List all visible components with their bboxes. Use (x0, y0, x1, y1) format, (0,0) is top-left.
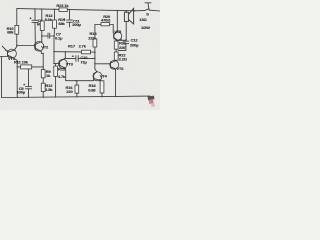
node C6 rail (34, 8, 35, 9)
speaker BL (124, 8, 133, 39)
wire VT6 base (95, 63, 111, 65)
node mid junction (53, 51, 54, 52)
resistor R13 (40, 9, 44, 36)
resistor R16 (75, 81, 79, 97)
node R17 R19 junction (94, 52, 95, 53)
wire VT1 emitter chain (13, 58, 17, 98)
ground end stamp (148, 96, 155, 107)
node R18 ground (101, 96, 102, 97)
transistor VT2 (34, 42, 44, 52)
resistor R22 (114, 52, 118, 61)
node VT5 rail (117, 10, 118, 11)
capacitor C6 (29, 9, 38, 42)
resistor R10 (14, 9, 18, 51)
wire signal down from C7 node (53, 36, 55, 64)
switch S (135, 9, 161, 11)
node C11 rail (69, 9, 70, 10)
wire VT3 emitter chain (66, 68, 94, 80)
svg-text:VT3: VT3 (66, 62, 74, 67)
capacitor C12 (118, 36, 129, 50)
resistor R21 (114, 41, 118, 52)
node R15 ground (55, 96, 56, 97)
node R11 tee (17, 66, 18, 67)
input signal arrow (2, 46, 7, 51)
svg-text:4.7k: 4.7k (58, 74, 66, 79)
svg-text:0.1µ: 0.1µ (55, 36, 63, 41)
svg-text:1/2W: 1/2W (141, 25, 150, 30)
svg-text:VT4: VT4 (100, 74, 108, 79)
transistor VT1 (7, 49, 16, 58)
node C10 right junction (94, 58, 95, 59)
svg-text:13Ω: 13Ω (139, 17, 147, 22)
wire R9 to R12 (42, 78, 44, 83)
resistor R14 (53, 9, 57, 36)
transistor VT3 (58, 59, 67, 68)
resistor R11 (17, 65, 43, 69)
svg-text:VT5: VT5 (114, 29, 122, 34)
resistor R18 (100, 80, 104, 96)
wire output to speaker (118, 39, 127, 41)
wire bottom ground rail (2, 96, 151, 97)
svg-text:200µ: 200µ (130, 42, 139, 47)
node VT3 base junction (53, 63, 54, 64)
resistor R23 (59, 8, 67, 12)
node R16 tee (75, 80, 76, 81)
svg-text:200µ: 200µ (72, 22, 81, 27)
node VT6 ground (115, 96, 116, 97)
wire VT2 emitter chain (41, 52, 43, 70)
svg-text:R11 10k: R11 10k (14, 60, 29, 65)
resistor R20 (95, 23, 113, 33)
capacitor C5 (23, 69, 32, 97)
wire right junction vertical (95, 52, 97, 71)
svg-text:1.5k: 1.5k (45, 87, 53, 92)
node R16 ground (76, 96, 77, 97)
resistor R9 (41, 70, 45, 78)
svg-text:100µ: 100µ (17, 90, 26, 95)
svg-text:22Ω: 22Ω (88, 35, 96, 40)
node C7 R14 junction (54, 35, 55, 36)
wire VT1 collector to VT2 base (17, 45, 36, 47)
svg-text:0.68: 0.68 (88, 87, 96, 92)
resistor R12 (41, 83, 45, 97)
svg-text:470Ω: 470Ω (101, 17, 111, 22)
node switch branch (134, 10, 135, 11)
node speaker output (126, 39, 127, 40)
node R12 ground (43, 97, 44, 98)
svg-text:2.2Ω: 2.2Ω (119, 56, 128, 61)
node R10 tee (16, 45, 17, 46)
transistor VT4 (93, 72, 102, 81)
resistor R19 (93, 25, 97, 53)
svg-text:VT2: VT2 (41, 45, 49, 50)
svg-text:5.6k: 5.6k (45, 17, 53, 22)
wire VT5 collector to rail (116, 11, 118, 32)
svg-text:R15: R15 (58, 67, 66, 72)
svg-text:2.7k: 2.7k (79, 43, 87, 48)
svg-text:220: 220 (66, 89, 73, 94)
svg-text:VT6: VT6 (116, 66, 124, 71)
capacitor C10 (65, 54, 95, 62)
node R13 bottom (41, 35, 42, 36)
svg-text:68k: 68k (7, 30, 14, 35)
wire VT3 base stub (54, 62, 60, 64)
wire VT6 emitter to ground (115, 69, 117, 97)
svg-text:R17: R17 (68, 43, 76, 48)
transistor VT6 (110, 60, 119, 69)
node VT1 emitter ground (17, 97, 18, 98)
node C10 left (65, 58, 66, 59)
node C5 ground (28, 97, 29, 98)
capacitor C11 (63, 10, 73, 27)
resistor R15 (54, 64, 58, 98)
wire VT5 emitter to output node (116, 39, 117, 42)
resistor R17 (82, 50, 95, 54)
wire left input down lead (1, 57, 3, 98)
svg-text:220: 220 (119, 45, 126, 50)
node R17 left junction (65, 51, 66, 52)
node emitter tee (43, 53, 44, 54)
node output tee (117, 40, 118, 41)
node VT6 base junction (94, 63, 95, 64)
svg-text:72µ: 72µ (80, 60, 87, 65)
wire mid horizontal to R17 (54, 51, 82, 53)
node speaker rail (126, 10, 127, 11)
wire VT3 collector (60, 52, 65, 62)
svg-text:68k: 68k (58, 21, 65, 26)
wire VT2 collector node (41, 36, 43, 42)
transistor VT5 (113, 32, 121, 41)
node R13 rail (41, 8, 42, 9)
wire input to VT1 base (0, 56, 8, 58)
wire top supply rail (17, 9, 135, 11)
svg-text:R23 1k: R23 1k (56, 3, 69, 8)
node R11 join (43, 66, 44, 67)
node R14 rail (54, 9, 55, 10)
battery terminal (145, 3, 152, 9)
capacitor C7 (42, 33, 54, 39)
